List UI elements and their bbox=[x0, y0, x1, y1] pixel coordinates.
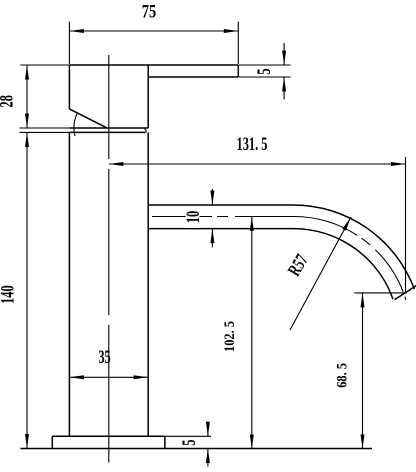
lever diagonal bbox=[69, 109, 106, 128]
faucet vertical centerline bbox=[108, 55, 110, 463]
dim 28 ext bottom (handle bottom ext) bbox=[20, 127, 70, 129]
lever angle arc bbox=[74, 114, 77, 136]
body left edge bbox=[68, 132, 70, 436]
dim 131.5 arrows bbox=[109, 162, 406, 166]
R57 leader line bbox=[290, 217, 351, 330]
svg-text:10: 10 bbox=[184, 211, 204, 223]
R57 arrowhead bbox=[342, 217, 351, 231]
handle bottom edge bbox=[69, 127, 148, 129]
dim 28 line bbox=[26, 65, 28, 128]
dim 140 ext top (body top ext) bbox=[20, 131, 70, 133]
dim 35 line bbox=[69, 376, 148, 378]
base plate left edge bbox=[51, 436, 53, 448]
dim 28 arrows bbox=[25, 65, 29, 128]
dim 28 extension top bbox=[20, 64, 69, 66]
dim 68.5 line bbox=[362, 293, 364, 449]
lever arm end cap bbox=[237, 65, 239, 77]
dim 68.5 arrows bbox=[361, 293, 365, 449]
spout outlet cut face bbox=[395, 286, 416, 300]
svg-text:5: 5 bbox=[180, 440, 200, 446]
dim 10 line bbox=[211, 189, 213, 247]
dim 102.5 line bbox=[251, 216, 253, 449]
dim 5 bottom line bbox=[207, 422, 209, 467]
svg-text:131. 5: 131. 5 bbox=[237, 135, 268, 155]
text 10 mask bbox=[186, 206, 200, 228]
dim 5 bottom arrows bbox=[206, 422, 210, 463]
lever arm bottom edge bbox=[148, 76, 238, 78]
dim 131.5 right extension bbox=[405, 157, 407, 293]
svg-text:75: 75 bbox=[142, 1, 156, 22]
dim 140 arrows bbox=[25, 132, 29, 448]
spout top wall bbox=[148, 205, 414, 289]
body top edge bbox=[69, 131, 145, 133]
svg-text:28: 28 bbox=[0, 95, 17, 107]
dim 5 top arrows bbox=[282, 51, 286, 92]
spout centerline bbox=[152, 217, 406, 300]
dim 10 arrows bbox=[210, 191, 214, 244]
dim 140 line bbox=[26, 132, 28, 448]
dim 75 extension left bbox=[68, 22, 70, 64]
svg-text:68. 5: 68. 5 bbox=[334, 363, 350, 388]
svg-text:5: 5 bbox=[255, 68, 275, 74]
handle top edge bbox=[69, 64, 238, 66]
handle left edge bbox=[68, 65, 70, 109]
dim 75 arrows bbox=[69, 29, 238, 33]
neck fillet bbox=[144, 128, 146, 132]
svg-text:35: 35 bbox=[98, 348, 110, 368]
dim 131.5 line bbox=[109, 163, 406, 165]
dim 35 arrows bbox=[69, 375, 148, 379]
dim 5 top ext lines bbox=[239, 65, 291, 77]
svg-text:102. 5: 102. 5 bbox=[221, 321, 237, 352]
dim 75 extension right bbox=[237, 22, 239, 64]
body right edge bbox=[147, 132, 149, 436]
handle right edge bbox=[147, 65, 149, 128]
base plate top bbox=[52, 435, 165, 437]
dim 102.5 arrows bbox=[250, 216, 254, 449]
base plate right edge bbox=[164, 436, 166, 448]
dim 68.5 extension bbox=[354, 292, 406, 294]
spout bottom wall bbox=[148, 229, 393, 300]
dim 5 top line bbox=[283, 43, 285, 99]
dim 5 bottom ext lines bbox=[165, 436, 372, 448]
svg-text:140: 140 bbox=[0, 285, 18, 304]
floor line bbox=[20, 448, 372, 450]
dim 75 line bbox=[69, 30, 238, 32]
